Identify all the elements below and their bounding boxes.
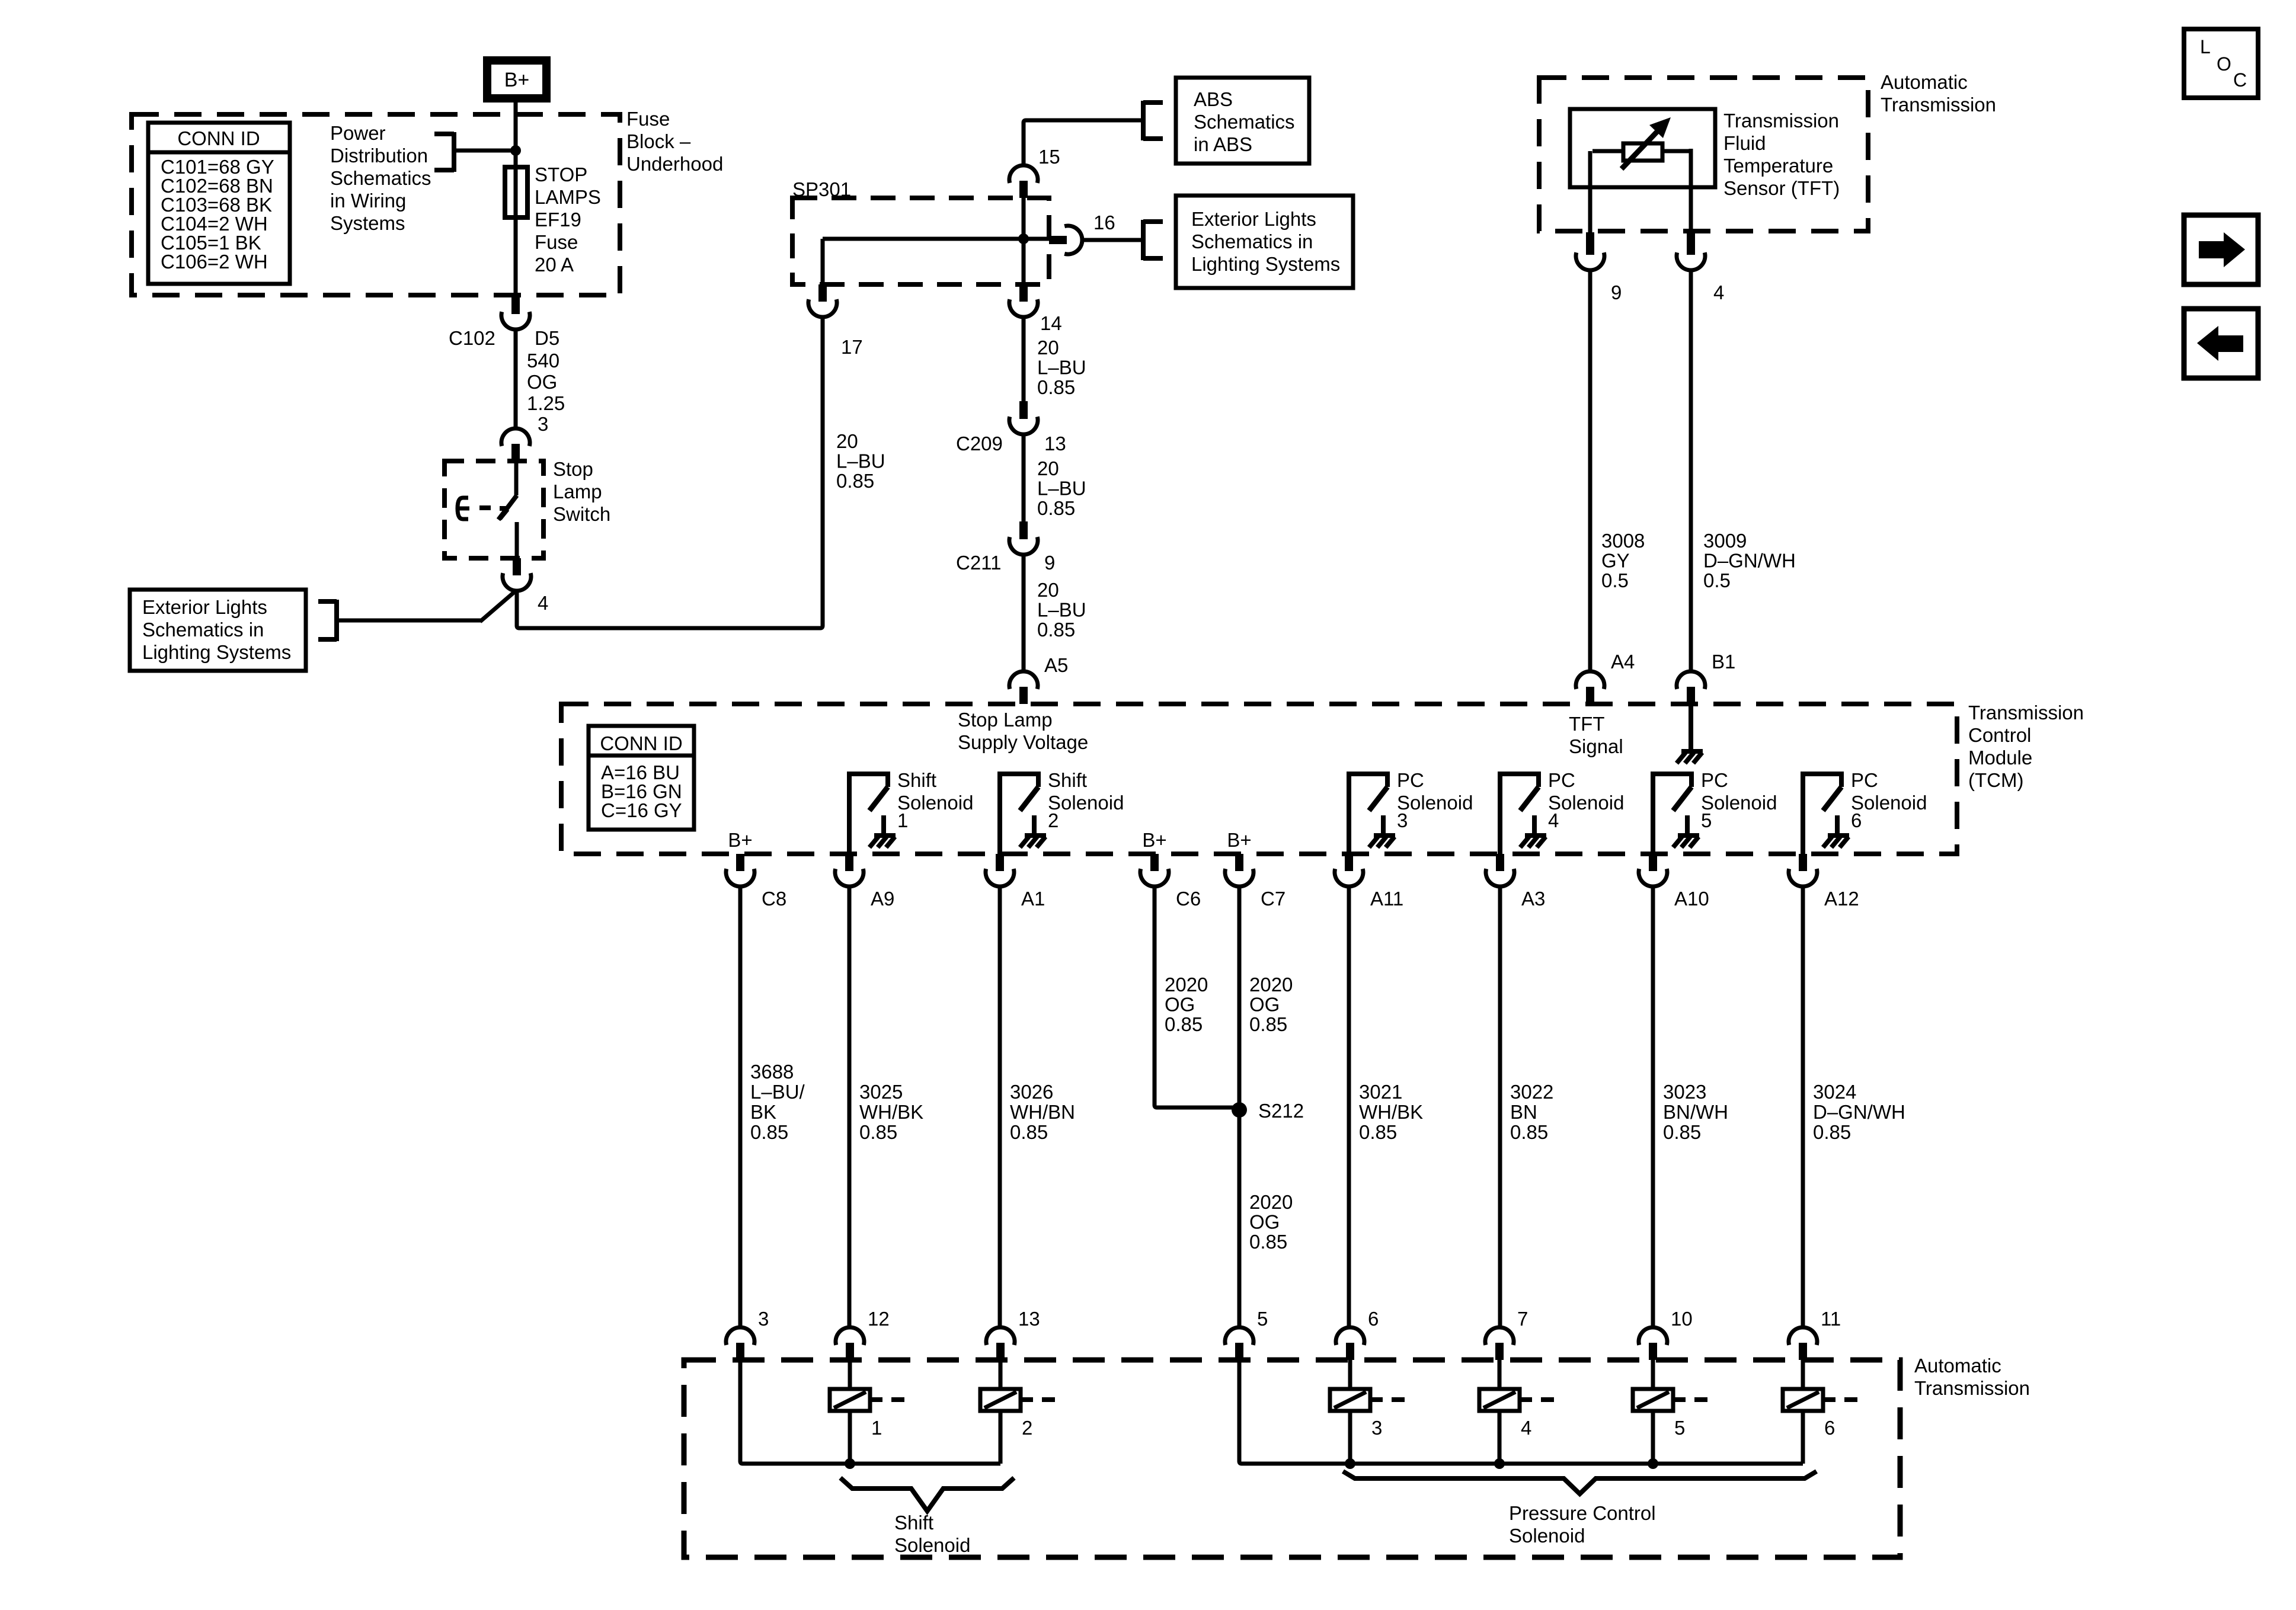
label pin 9 TFT bbox=[1611, 281, 1622, 303]
label pin A11 bbox=[1370, 888, 1403, 910]
svg-text:20: 20 bbox=[1037, 337, 1059, 359]
svg-text:Power: Power bbox=[330, 122, 386, 144]
svg-text:CONN ID: CONN ID bbox=[600, 732, 682, 754]
svg-text:20 A: 20 A bbox=[535, 254, 574, 276]
wire pin 3 to solenoid bus bbox=[740, 1360, 1000, 1464]
label wire 3009 D-GN/WH 0.5 bbox=[1703, 530, 1796, 591]
svg-text:3: 3 bbox=[1397, 809, 1408, 831]
svg-text:Pressure Control: Pressure Control bbox=[1509, 1502, 1656, 1524]
label B+ pin C8 bbox=[728, 829, 752, 851]
shift solenoid 2 feed wire bbox=[999, 1360, 1003, 1389]
PC solenoid 5 feed wire bbox=[1651, 1360, 1655, 1389]
wire B+ feed down to fuse bbox=[514, 103, 518, 165]
label pin 17 bbox=[841, 336, 863, 358]
label pin A1 bbox=[1021, 888, 1045, 910]
svg-text:Shift: Shift bbox=[897, 769, 936, 791]
label automatic transmission top bbox=[1881, 71, 1996, 116]
label pin 9 C211 bbox=[1044, 552, 1055, 574]
svg-text:Transmission: Transmission bbox=[1881, 94, 1996, 116]
svg-text:4: 4 bbox=[1713, 281, 1724, 303]
label transmission pin 3 bbox=[758, 1308, 769, 1330]
wire 3008 GY 0.5 bbox=[1588, 270, 1593, 671]
label pin B1 bbox=[1712, 651, 1735, 673]
svg-text:B+: B+ bbox=[504, 69, 530, 91]
transmission pin 10 bbox=[1639, 1327, 1667, 1360]
svg-text:Fuse: Fuse bbox=[535, 231, 578, 253]
TFT sensor internal wires bbox=[1590, 149, 1691, 232]
svg-text:5: 5 bbox=[1257, 1308, 1268, 1330]
svg-text:2020: 2020 bbox=[1249, 974, 1293, 996]
svg-text:20: 20 bbox=[1037, 579, 1059, 601]
wire 3025 WH/BK 0.85 bbox=[848, 886, 852, 1327]
svg-text:CONN ID: CONN ID bbox=[177, 127, 260, 149]
label pin 14 bbox=[1040, 312, 1062, 334]
wire 3009 D-GN/WH 0.5 bbox=[1689, 270, 1693, 671]
svg-text:9: 9 bbox=[1044, 552, 1055, 574]
svg-text:ABS: ABS bbox=[1194, 88, 1233, 110]
svg-text:A11: A11 bbox=[1370, 888, 1403, 910]
svg-text:Solenoid: Solenoid bbox=[1509, 1525, 1585, 1547]
svg-text:Stop Lamp: Stop Lamp bbox=[958, 709, 1053, 731]
label wire 20 L-BU 0.85 pin14 bbox=[1037, 337, 1086, 398]
SP301 pin 14 bbox=[1009, 284, 1038, 317]
svg-text:OG: OG bbox=[1165, 994, 1195, 1016]
PC solenoid 5 return wire bbox=[1651, 1411, 1655, 1464]
label pin A12 bbox=[1824, 888, 1859, 910]
label stop lamp switch bbox=[553, 458, 610, 525]
splice S212 bbox=[1232, 1102, 1247, 1118]
svg-text:20: 20 bbox=[1037, 457, 1059, 479]
label automatic transmission bottom bbox=[1914, 1355, 2030, 1399]
wire 3688 L-BU/BK 0.85 bbox=[738, 886, 743, 1327]
svg-text:13: 13 bbox=[1018, 1308, 1040, 1330]
wire 3026 WH/BN 0.85 bbox=[998, 886, 1002, 1327]
svg-text:Underhood: Underhood bbox=[626, 153, 723, 175]
PC solenoid 6 feed wire bbox=[1801, 1360, 1805, 1389]
splice pack SP301 dashed box bbox=[792, 198, 1049, 284]
bracket ABS schematics bbox=[1143, 101, 1163, 140]
label pin 13 bbox=[1044, 433, 1066, 454]
label wire 20 L-BU 0.85 C211 bbox=[1037, 579, 1086, 641]
svg-text:4: 4 bbox=[1548, 809, 1559, 831]
svg-text:Block –: Block – bbox=[626, 130, 691, 152]
svg-text:PC: PC bbox=[1397, 769, 1424, 791]
svg-text:B+: B+ bbox=[1227, 829, 1251, 851]
transmission control module dashed box bbox=[561, 704, 1957, 854]
label wire 20 L-BU 0.85 pin17 bbox=[836, 430, 885, 492]
PC solenoid 3 feed wire bbox=[1348, 1360, 1352, 1389]
label wire 3024 bbox=[1813, 1081, 1905, 1143]
svg-text:Automatic: Automatic bbox=[1881, 71, 1968, 93]
svg-text:13: 13 bbox=[1044, 433, 1066, 454]
svg-text:L: L bbox=[2200, 36, 2211, 57]
junction node PC bus b bbox=[1494, 1458, 1505, 1469]
svg-text:B+: B+ bbox=[728, 829, 752, 851]
svg-text:2020: 2020 bbox=[1249, 1191, 1293, 1213]
label pin C6 bbox=[1176, 888, 1201, 910]
svg-text:BN: BN bbox=[1510, 1101, 1537, 1123]
junction node shift bus bbox=[845, 1458, 855, 1469]
transmission pin 6 bbox=[1336, 1327, 1364, 1360]
label B+ pin C6 bbox=[1142, 829, 1166, 851]
junction node PC bus a bbox=[1345, 1458, 1355, 1469]
svg-text:B+: B+ bbox=[1142, 829, 1166, 851]
label transmission pin 7 bbox=[1517, 1308, 1528, 1330]
B+ power terminal bbox=[487, 60, 546, 98]
svg-text:Schematics in: Schematics in bbox=[142, 619, 264, 641]
svg-text:Solenoid: Solenoid bbox=[897, 792, 973, 814]
svg-text:3: 3 bbox=[538, 413, 548, 435]
PC solenoid 4 feed wire bbox=[1498, 1360, 1502, 1389]
transmission pin 12 bbox=[836, 1327, 864, 1360]
svg-text:2020: 2020 bbox=[1165, 974, 1208, 996]
label fuse block underhood bbox=[626, 108, 723, 175]
PC solenoid 3 return wire bbox=[1348, 1411, 1352, 1464]
label wire 2020 OG C7 bbox=[1249, 974, 1293, 1035]
label pin 4 bbox=[538, 592, 548, 614]
connector C209 pin 13 bbox=[1009, 401, 1038, 434]
svg-text:L–BU: L–BU bbox=[836, 450, 885, 472]
wire 2020 OG 0.85 from C6 bbox=[1155, 886, 1239, 1108]
label transmission pin 6 bbox=[1368, 1308, 1379, 1330]
wire pin 16 to exterior lights bbox=[1083, 238, 1143, 242]
svg-text:0.85: 0.85 bbox=[1010, 1121, 1048, 1143]
shift solenoid 2 bbox=[980, 1389, 1055, 1439]
label wire 540 OG 1.25 bbox=[527, 350, 565, 414]
bracket to power distribution schematics bbox=[434, 132, 513, 172]
svg-text:Distribution: Distribution bbox=[330, 145, 428, 167]
svg-text:17: 17 bbox=[841, 336, 863, 358]
bracket exterior lights left bbox=[318, 600, 337, 641]
svg-text:C7: C7 bbox=[1261, 888, 1285, 910]
svg-text:C211: C211 bbox=[956, 552, 1001, 574]
automatic transmission dashed box top bbox=[1539, 78, 1868, 231]
wire stop lamp switch to SP301 pin 17 bbox=[517, 317, 823, 628]
svg-text:OG: OG bbox=[1249, 994, 1280, 1016]
stop lamp switch dashed box bbox=[445, 461, 543, 558]
svg-text:WH/BK: WH/BK bbox=[859, 1101, 923, 1123]
svg-text:0.85: 0.85 bbox=[1510, 1121, 1548, 1143]
svg-text:Schematics in: Schematics in bbox=[1191, 231, 1313, 252]
svg-text:0.85: 0.85 bbox=[1037, 376, 1075, 398]
svg-text:Solenoid: Solenoid bbox=[1548, 792, 1624, 814]
svg-text:Exterior Lights: Exterior Lights bbox=[142, 596, 267, 618]
TFT sensor pin 9 bbox=[1576, 232, 1604, 270]
label transmission pin 10 bbox=[1671, 1308, 1693, 1330]
svg-text:Module: Module bbox=[1968, 747, 2032, 769]
junction node PC bus c bbox=[1648, 1458, 1658, 1469]
TCM pin B1 bbox=[1677, 671, 1705, 704]
TCM pin A11 bbox=[1335, 854, 1363, 886]
svg-text:0.85: 0.85 bbox=[750, 1121, 788, 1143]
label exterior lights schematics right bbox=[1191, 208, 1340, 275]
LOC legend icon bbox=[2184, 29, 2258, 98]
label S212 bbox=[1258, 1100, 1304, 1122]
wire 540 OG 1.25 bbox=[514, 329, 518, 428]
svg-text:Switch: Switch bbox=[553, 503, 610, 525]
svg-text:2: 2 bbox=[1022, 1417, 1032, 1439]
label wire 3688 bbox=[750, 1061, 805, 1143]
svg-text:L–BU: L–BU bbox=[1037, 599, 1086, 621]
svg-text:0.85: 0.85 bbox=[859, 1121, 897, 1143]
svg-text:BN/WH: BN/WH bbox=[1663, 1101, 1728, 1123]
svg-text:540: 540 bbox=[527, 350, 559, 372]
arrow next page icon bbox=[2184, 215, 2258, 284]
SP301 internal wires bbox=[823, 198, 1049, 284]
svg-text:Shift: Shift bbox=[894, 1512, 933, 1534]
label wire 2020 OG below S212 bbox=[1249, 1191, 1293, 1253]
wire branch to exterior lights bbox=[480, 592, 514, 622]
svg-text:3022: 3022 bbox=[1510, 1081, 1553, 1103]
svg-text:Fluid: Fluid bbox=[1723, 132, 1766, 154]
wire 3021 WH/BK 0.85 bbox=[1347, 886, 1351, 1327]
label transmission pin 12 bbox=[868, 1308, 890, 1330]
label transmission control module bbox=[1968, 702, 2084, 791]
svg-text:A12: A12 bbox=[1824, 888, 1859, 910]
svg-text:A1: A1 bbox=[1021, 888, 1045, 910]
svg-text:14: 14 bbox=[1040, 312, 1062, 334]
label shift solenoid group bbox=[894, 1512, 970, 1556]
wire 3023 BN/WH 0.85 bbox=[1651, 886, 1655, 1327]
svg-text:C6: C6 bbox=[1176, 888, 1201, 910]
svg-text:Lighting Systems: Lighting Systems bbox=[1191, 253, 1340, 275]
svg-text:GY: GY bbox=[1601, 550, 1630, 572]
svg-text:Transmission: Transmission bbox=[1968, 702, 2084, 724]
svg-text:C106=2 WH: C106=2 WH bbox=[161, 251, 268, 273]
svg-text:0.85: 0.85 bbox=[1037, 497, 1075, 519]
svg-text:Fuse: Fuse bbox=[626, 108, 670, 130]
svg-text:A9: A9 bbox=[871, 888, 894, 910]
wire 3022 BN 0.85 bbox=[1498, 886, 1502, 1327]
svg-text:S212: S212 bbox=[1258, 1100, 1304, 1122]
wire 3024 D-GN/WH 0.85 bbox=[1801, 886, 1805, 1327]
svg-text:BK: BK bbox=[750, 1101, 776, 1123]
TFT sensor pin 4 bbox=[1677, 232, 1705, 270]
svg-text:0.85: 0.85 bbox=[1249, 1231, 1287, 1253]
svg-text:Schematics: Schematics bbox=[330, 167, 431, 189]
svg-text:WH/BN: WH/BN bbox=[1010, 1101, 1075, 1123]
TCM pin A10 bbox=[1639, 854, 1667, 886]
wire 2020 OG 0.85 from C7 bbox=[1237, 886, 1242, 1327]
svg-text:6: 6 bbox=[1824, 1417, 1835, 1439]
brace pressure control solenoid bbox=[1343, 1471, 1817, 1494]
svg-text:Transmission: Transmission bbox=[1914, 1377, 2030, 1399]
thermistor TFT bbox=[1622, 117, 1671, 169]
CONN ID table fuse block bbox=[148, 123, 290, 284]
exterior lights schematics box left bbox=[130, 590, 306, 671]
SP301 junction node bbox=[1018, 233, 1029, 244]
svg-text:L–BU/: L–BU/ bbox=[750, 1081, 805, 1103]
svg-text:0.85: 0.85 bbox=[836, 470, 874, 492]
svg-text:Automatic: Automatic bbox=[1914, 1355, 2001, 1377]
svg-text:C102: C102 bbox=[449, 327, 495, 349]
svg-text:D–GN/WH: D–GN/WH bbox=[1703, 550, 1796, 572]
label C209 bbox=[956, 433, 1003, 454]
svg-text:7: 7 bbox=[1517, 1308, 1528, 1330]
transmission pin 5 bbox=[1225, 1327, 1253, 1360]
transmission pin 7 bbox=[1485, 1327, 1514, 1360]
svg-text:Transmission: Transmission bbox=[1723, 110, 1839, 132]
svg-text:0.85: 0.85 bbox=[1249, 1013, 1287, 1035]
svg-text:STOP: STOP bbox=[535, 164, 587, 185]
connector C102 pin D5 bbox=[501, 296, 530, 329]
svg-text:C8: C8 bbox=[762, 888, 786, 910]
label transmission fluid temperature sensor bbox=[1723, 110, 1840, 199]
svg-text:5: 5 bbox=[1674, 1417, 1685, 1439]
svg-text:Solenoid: Solenoid bbox=[1397, 792, 1473, 814]
label wire 3021 bbox=[1359, 1081, 1423, 1143]
label ABS schematics bbox=[1194, 88, 1295, 155]
shift solenoid 2 driver bbox=[1000, 769, 1124, 855]
svg-text:10: 10 bbox=[1671, 1308, 1693, 1330]
svg-text:Signal: Signal bbox=[1569, 735, 1623, 757]
TCM pin A1 bbox=[986, 854, 1014, 886]
label pin 16 bbox=[1093, 212, 1115, 233]
label fuse STOP LAMPS EF19 bbox=[535, 164, 601, 276]
svg-text:Shift: Shift bbox=[1048, 769, 1087, 791]
pressure control solenoid 3 bbox=[1330, 1389, 1405, 1439]
svg-text:D5: D5 bbox=[535, 327, 559, 349]
label pin 15 bbox=[1038, 146, 1060, 168]
svg-text:PC: PC bbox=[1851, 769, 1878, 791]
label pin A4 bbox=[1611, 651, 1635, 673]
svg-text:Temperature: Temperature bbox=[1723, 155, 1833, 177]
TCM pin A12 bbox=[1789, 854, 1817, 886]
svg-text:Control: Control bbox=[1968, 724, 2031, 746]
svg-text:3688: 3688 bbox=[750, 1061, 794, 1083]
PC solenoid 3 driver bbox=[1349, 769, 1473, 855]
svg-text:OG: OG bbox=[527, 371, 557, 393]
svg-text:11: 11 bbox=[1821, 1308, 1841, 1330]
svg-text:in Wiring: in Wiring bbox=[330, 190, 406, 212]
label SP301 bbox=[792, 178, 851, 200]
stop lamp switch pin 3 bbox=[501, 428, 530, 461]
label wire 3025 bbox=[859, 1081, 923, 1143]
svg-text:PC: PC bbox=[1701, 769, 1728, 791]
svg-text:(TCM): (TCM) bbox=[1968, 769, 2023, 791]
svg-text:3: 3 bbox=[1371, 1417, 1382, 1439]
svg-text:OG: OG bbox=[1249, 1211, 1280, 1233]
label wire 3023 bbox=[1663, 1081, 1728, 1143]
svg-text:C209: C209 bbox=[956, 433, 1003, 454]
svg-text:0.85: 0.85 bbox=[1813, 1121, 1851, 1143]
svg-text:A3: A3 bbox=[1521, 888, 1545, 910]
label wire 3008 GY 0.5 bbox=[1601, 530, 1645, 591]
label pin A9 bbox=[871, 888, 894, 910]
connector C211 pin 9 bbox=[1009, 521, 1038, 555]
svg-text:2: 2 bbox=[1048, 809, 1059, 831]
label C102 bbox=[449, 327, 495, 349]
svg-text:EF19: EF19 bbox=[535, 209, 581, 231]
label pin D5 bbox=[535, 327, 559, 349]
svg-text:6: 6 bbox=[1368, 1308, 1379, 1330]
transmission pin 11 bbox=[1789, 1327, 1817, 1360]
svg-text:0.85: 0.85 bbox=[1165, 1013, 1203, 1035]
label transmission pin 11 bbox=[1821, 1308, 1841, 1330]
svg-text:3008: 3008 bbox=[1601, 530, 1645, 552]
PC solenoid 4 driver bbox=[1500, 769, 1624, 855]
fuse block underhood dashed box bbox=[132, 114, 620, 295]
svg-text:Stop: Stop bbox=[553, 458, 593, 480]
svg-text:Exterior Lights: Exterior Lights bbox=[1191, 208, 1316, 230]
label pin C8 bbox=[762, 888, 786, 910]
transmission pin 3 bbox=[726, 1327, 754, 1360]
shift solenoid 1 driver bbox=[849, 769, 973, 855]
svg-text:3009: 3009 bbox=[1703, 530, 1747, 552]
svg-text:WH/BK: WH/BK bbox=[1359, 1101, 1423, 1123]
label C211 bbox=[956, 552, 1001, 574]
svg-text:O: O bbox=[2217, 53, 2231, 75]
svg-text:1: 1 bbox=[897, 809, 908, 831]
svg-text:0.5: 0.5 bbox=[1601, 569, 1629, 591]
SP301 pin 15 bbox=[1009, 165, 1038, 198]
svg-text:Lighting Systems: Lighting Systems bbox=[142, 641, 291, 663]
TCM pin C8 bbox=[726, 854, 754, 886]
TCM internal ground from B1 bbox=[1677, 704, 1703, 763]
stop lamp switch pin 4 bbox=[503, 558, 531, 591]
svg-text:Sensor (TFT): Sensor (TFT) bbox=[1723, 177, 1840, 199]
TCM pin C6 bbox=[1140, 854, 1169, 886]
pressure control solenoid 6 bbox=[1783, 1389, 1857, 1439]
label pin A3 bbox=[1521, 888, 1545, 910]
svg-text:16: 16 bbox=[1093, 212, 1115, 233]
pressure control solenoid 4 bbox=[1479, 1389, 1554, 1439]
wire C209 to C211 bbox=[1022, 434, 1026, 521]
svg-text:0.5: 0.5 bbox=[1703, 569, 1731, 591]
svg-text:6: 6 bbox=[1851, 809, 1862, 831]
label pressure control solenoid group bbox=[1509, 1502, 1656, 1547]
label B+ pin C7 bbox=[1227, 829, 1251, 851]
svg-text:3021: 3021 bbox=[1359, 1081, 1402, 1103]
svg-text:Lamp: Lamp bbox=[553, 481, 602, 502]
label power distribution schematics bbox=[330, 122, 431, 234]
junction node power distribution tap bbox=[510, 145, 521, 156]
label transmission pin 13 bbox=[1018, 1308, 1040, 1330]
svg-text:4: 4 bbox=[538, 592, 548, 614]
stop lamp switch contacts bbox=[458, 461, 517, 558]
arrow previous page icon bbox=[2184, 309, 2258, 378]
svg-text:9: 9 bbox=[1611, 281, 1622, 303]
fuse EF19 STOP LAMPS 20A bbox=[505, 165, 527, 296]
svg-text:5: 5 bbox=[1701, 809, 1712, 831]
bracket exterior lights right bbox=[1143, 220, 1163, 260]
label pin A5 bbox=[1044, 654, 1068, 676]
PC solenoid 4 return wire bbox=[1498, 1411, 1502, 1464]
wire C211 to TCM A5 bbox=[1022, 555, 1026, 671]
svg-text:0.85: 0.85 bbox=[1359, 1121, 1397, 1143]
svg-text:Solenoid: Solenoid bbox=[894, 1534, 970, 1556]
TCM pin C7 bbox=[1225, 854, 1253, 886]
svg-text:L–BU: L–BU bbox=[1037, 357, 1086, 379]
svg-text:A4: A4 bbox=[1611, 651, 1635, 673]
ABS schematics box bbox=[1176, 78, 1309, 164]
wire pin 15 to ABS bbox=[1024, 120, 1143, 165]
svg-text:TFT: TFT bbox=[1569, 713, 1604, 735]
svg-text:1: 1 bbox=[871, 1417, 882, 1439]
svg-text:Schematics: Schematics bbox=[1194, 111, 1295, 133]
svg-text:LAMPS: LAMPS bbox=[535, 186, 601, 208]
shift solenoid 1 feed wire bbox=[848, 1360, 852, 1389]
label transmission pin 5 bbox=[1257, 1308, 1268, 1330]
svg-text:B1: B1 bbox=[1712, 651, 1735, 673]
CONN ID table TCM bbox=[589, 726, 694, 830]
wire exterior lights branch bbox=[337, 619, 481, 623]
wire pin 14 to C209 bbox=[1022, 317, 1026, 401]
label pin 3 bbox=[538, 413, 548, 435]
svg-text:D–GN/WH: D–GN/WH bbox=[1813, 1101, 1905, 1123]
svg-text:in ABS: in ABS bbox=[1194, 133, 1252, 155]
svg-text:3025: 3025 bbox=[859, 1081, 903, 1103]
